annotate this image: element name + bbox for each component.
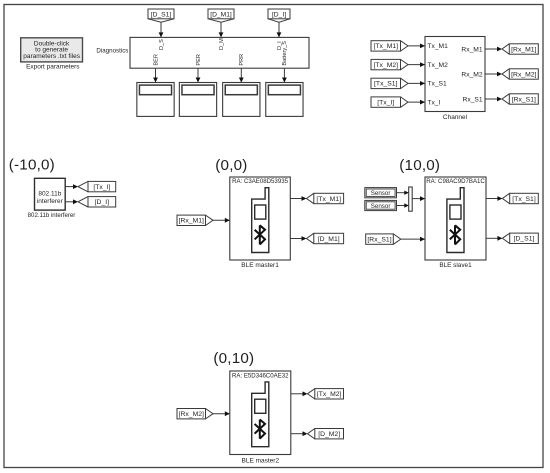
svg-text:[Rx_S1]: [Rx_S1] — [367, 236, 391, 243]
svg-text:RA: E5D346C0AE32: RA: E5D346C0AE32 — [232, 372, 289, 379]
svg-text:PER: PER — [196, 54, 202, 66]
svg-text:[Tx_M2]: [Tx_M2] — [317, 391, 342, 398]
svg-text:BER: BER — [153, 54, 159, 66]
svg-text:[Tx_M2]: [Tx_M2] — [373, 62, 398, 69]
svg-text:Rx_S1: Rx_S1 — [463, 96, 483, 103]
svg-text:[Rx_M1]: [Rx_M1] — [511, 46, 536, 53]
svg-text:parameters .txt files: parameters .txt files — [23, 53, 80, 60]
svg-text:Tx_M1: Tx_M1 — [427, 43, 448, 50]
svg-text:Sensor: Sensor — [371, 190, 391, 197]
svg-text:BLE slave1: BLE slave1 — [439, 262, 472, 269]
svg-text:[D_M1]: [D_M1] — [210, 11, 232, 18]
svg-text:802.11b: 802.11b — [38, 190, 61, 197]
svg-text:Sensor: Sensor — [371, 203, 391, 210]
svg-text:(10,0): (10,0) — [399, 157, 440, 174]
svg-text:[Tx_M1]: [Tx_M1] — [316, 196, 341, 203]
svg-text:[Tx_M1]: [Tx_M1] — [373, 43, 398, 50]
svg-text:[Rx_M2]: [Rx_M2] — [511, 71, 536, 78]
svg-text:[Rx_S1]: [Rx_S1] — [512, 96, 536, 103]
svg-text:[Rx_M1]: [Rx_M1] — [179, 218, 204, 225]
svg-text:Channel: Channel — [443, 114, 468, 121]
svg-text:Battery_S: Battery_S — [282, 41, 288, 66]
svg-text:[D_S1]: [D_S1] — [514, 236, 535, 243]
svg-text:Rx_M1: Rx_M1 — [461, 46, 482, 53]
svg-text:[Tx_I]: [Tx_I] — [377, 99, 394, 106]
svg-text:Export parameters: Export parameters — [26, 64, 80, 71]
svg-text:PRR: PRR — [239, 54, 245, 66]
svg-text:BLE master2: BLE master2 — [242, 458, 280, 465]
svg-text:Tx_M2: Tx_M2 — [427, 62, 448, 69]
svg-text:[Tx_S1]: [Tx_S1] — [512, 196, 536, 203]
svg-text:Tx_I: Tx_I — [427, 99, 440, 106]
svg-text:BLE master1: BLE master1 — [241, 262, 279, 269]
svg-text:[D_I]: [D_I] — [272, 11, 286, 18]
svg-text:[D_S1]: [D_S1] — [151, 11, 172, 18]
svg-text:[D_I]: [D_I] — [95, 199, 109, 206]
svg-text:D_M: D_M — [219, 38, 225, 50]
svg-text:Diagnostics: Diagnostics — [96, 47, 128, 54]
svg-text:(0,10): (0,10) — [213, 350, 254, 367]
svg-text:RA: C98AC9D7BA1C: RA: C98AC9D7BA1C — [426, 178, 485, 185]
svg-text:[D_M1]: [D_M1] — [318, 236, 340, 243]
svg-text:(0,0): (0,0) — [215, 157, 247, 174]
svg-text:[Tx_I]: [Tx_I] — [93, 184, 110, 191]
svg-text:[Tx_S1]: [Tx_S1] — [374, 81, 398, 88]
svg-text:(-10,0): (-10,0) — [9, 157, 55, 174]
svg-text:[D_M2]: [D_M2] — [318, 431, 340, 438]
svg-text:Tx_S1: Tx_S1 — [427, 81, 447, 88]
svg-text:interferer: interferer — [37, 198, 64, 205]
svg-text:RA: C3AE08D53935: RA: C3AE08D53935 — [232, 178, 289, 185]
svg-text:D_S: D_S — [159, 39, 165, 50]
svg-text:802.11b interferer: 802.11b interferer — [28, 212, 76, 219]
svg-text:Rx_M2: Rx_M2 — [461, 71, 482, 78]
svg-text:[Rx_M2]: [Rx_M2] — [179, 411, 204, 418]
